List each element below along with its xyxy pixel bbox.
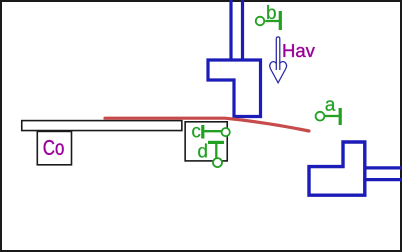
harbor basin outline (top structure) (208, 60, 261, 117)
marker c: head bar (201, 125, 204, 139)
marker d: head bar (208, 141, 224, 144)
Co box (37, 131, 71, 164)
label a (326, 100, 336, 110)
red course line (105, 118, 309, 131)
breakwater structure (bottom right) (309, 142, 365, 195)
right channel upper wall (366, 166, 402, 169)
harbor channel right wall (241, 0, 244, 61)
marker b: stem (265, 20, 279, 22)
label c (192, 127, 200, 137)
marker a: head bar (339, 108, 342, 125)
marker b: head bar (279, 11, 282, 30)
c/d box (185, 122, 227, 161)
marker c: circle (222, 128, 230, 136)
right channel lower wall (366, 178, 402, 181)
label b (267, 5, 276, 19)
marker a: circle (316, 112, 325, 121)
label d (198, 144, 207, 158)
marker c: stem (204, 130, 221, 132)
marker d: circle (213, 158, 222, 167)
marker b: circle (256, 17, 265, 26)
marker a: stem (325, 115, 339, 117)
marker d: stem (215, 144, 217, 158)
label Hav (284, 44, 315, 57)
current arrow (hollow, pointing down) (270, 37, 287, 83)
harbor channel left wall (229, 0, 232, 61)
pier bar (22, 121, 182, 131)
label Co (44, 140, 64, 155)
